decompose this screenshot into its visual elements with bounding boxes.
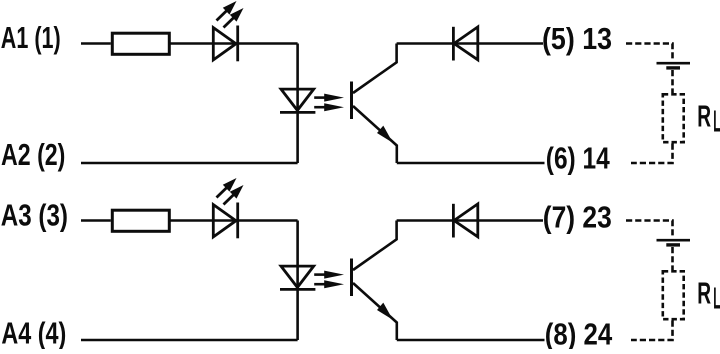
wire A4 rail — [81, 339, 298, 342]
diode D2c cathode bar — [452, 204, 455, 238]
LED D2a light emission arrow 2 — [224, 185, 244, 205]
phototransistor Q2 base bar — [350, 259, 353, 297]
phototransistor Q1 base bar — [350, 82, 353, 120]
wire A3 to resistor — [81, 219, 111, 222]
svg-text:A2 (2): A2 (2) — [1, 137, 65, 172]
optical coupling arrow 1 to phototransistor Q2 — [314, 271, 344, 279]
svg-text:R: R — [697, 99, 711, 134]
phototransistor Q2 emitter arrowhead — [377, 303, 393, 320]
LED D1a (optocoupler emitter diode) triangle — [213, 28, 236, 60]
battery cell BT2 negative plate — [666, 243, 680, 246]
battery cell BT1 negative plate — [666, 66, 680, 69]
photo-LED D2b cathode bar — [280, 288, 315, 291]
phototransistor Q2 emitter lead — [353, 283, 397, 340]
svg-text:(8) 24: (8) 24 — [545, 317, 613, 349]
svg-text:(5) 13: (5) 13 — [542, 21, 612, 56]
photo-LED D1b cathode bar — [280, 111, 315, 114]
LED D1a light emission arrow 1 — [217, 1, 237, 21]
LED D2a cathode bar — [236, 203, 239, 239]
optical coupling arrow 1 to phototransistor Q1 — [314, 94, 344, 102]
photo-LED D1b triangle (pointing down) — [281, 89, 314, 110]
optical coupling arrow 2 to phototransistor Q2 — [314, 280, 344, 288]
dashed wire battery to load resistor RL — [671, 247, 674, 270]
wire collector to diode D2c and terminal (7) 23 — [397, 219, 543, 222]
LED D1a cathode bar — [236, 26, 239, 62]
wire collector to diode D1c and terminal (5) 13 — [397, 42, 543, 45]
svg-text:(6) 14: (6) 14 — [546, 140, 610, 175]
diode D1c triangle (pointing left) — [454, 27, 478, 60]
wire vertical branch down to A2 rail — [296, 44, 299, 164]
load resistor RL1 dashed box — [663, 94, 684, 142]
diode D2c triangle (pointing left) — [454, 204, 478, 237]
channel 2 — [1, 178, 720, 352]
resistor R2 (input series resistor) — [112, 210, 169, 231]
dashed wire terminal 23 to external supply — [626, 221, 673, 239]
wire vertical branch down to A4 rail — [296, 221, 299, 341]
svg-text:R: R — [697, 276, 711, 311]
battery cell BT1 positive plate — [657, 62, 691, 65]
phototransistor Q1 emitter arrowhead — [377, 126, 393, 143]
optical coupling arrow 2 to phototransistor Q1 — [314, 103, 344, 111]
load resistor RL2 dashed box — [663, 271, 684, 319]
dashed wire load resistor to terminal 14 — [631, 144, 673, 164]
svg-text:A3 (3): A3 (3) — [1, 197, 68, 232]
load resistor label RL — [697, 276, 720, 316]
wire A1 to resistor — [81, 42, 111, 45]
diode D1c cathode bar — [452, 27, 455, 61]
LED D1a light emission arrow 2 — [224, 8, 244, 28]
phototransistor Q2 collector lead — [353, 221, 397, 271]
dashed wire terminal 13 to external supply — [626, 44, 673, 62]
svg-text:A1 (1): A1 (1) — [1, 20, 61, 55]
LED D2a (optocoupler emitter diode) triangle — [213, 205, 236, 237]
wire emitter to terminal (8) 24 — [397, 339, 545, 342]
svg-text:A4 (4): A4 (4) — [1, 315, 66, 349]
wire A2 rail — [81, 162, 298, 165]
svg-text:L: L — [713, 281, 720, 316]
photo-LED D2b triangle (pointing down) — [281, 266, 314, 287]
phototransistor Q1 emitter lead — [353, 106, 397, 163]
wire resistor to LED D2a and corner — [169, 219, 297, 222]
dashed wire load resistor to terminal 24 — [631, 321, 673, 341]
battery cell BT2 positive plate — [657, 239, 691, 242]
load resistor label RL — [697, 99, 720, 139]
wire resistor to LED D1a and corner — [169, 42, 297, 45]
wire emitter to terminal (6) 14 — [397, 162, 545, 165]
svg-text:(7) 23: (7) 23 — [543, 199, 612, 234]
svg-text:L: L — [713, 104, 720, 139]
channel 1 — [1, 1, 720, 175]
LED D2a light emission arrow 1 — [217, 178, 237, 198]
dashed wire battery to load resistor RL — [671, 70, 674, 93]
phototransistor Q1 collector lead — [353, 44, 397, 94]
resistor R1 (input series resistor) — [112, 33, 169, 54]
